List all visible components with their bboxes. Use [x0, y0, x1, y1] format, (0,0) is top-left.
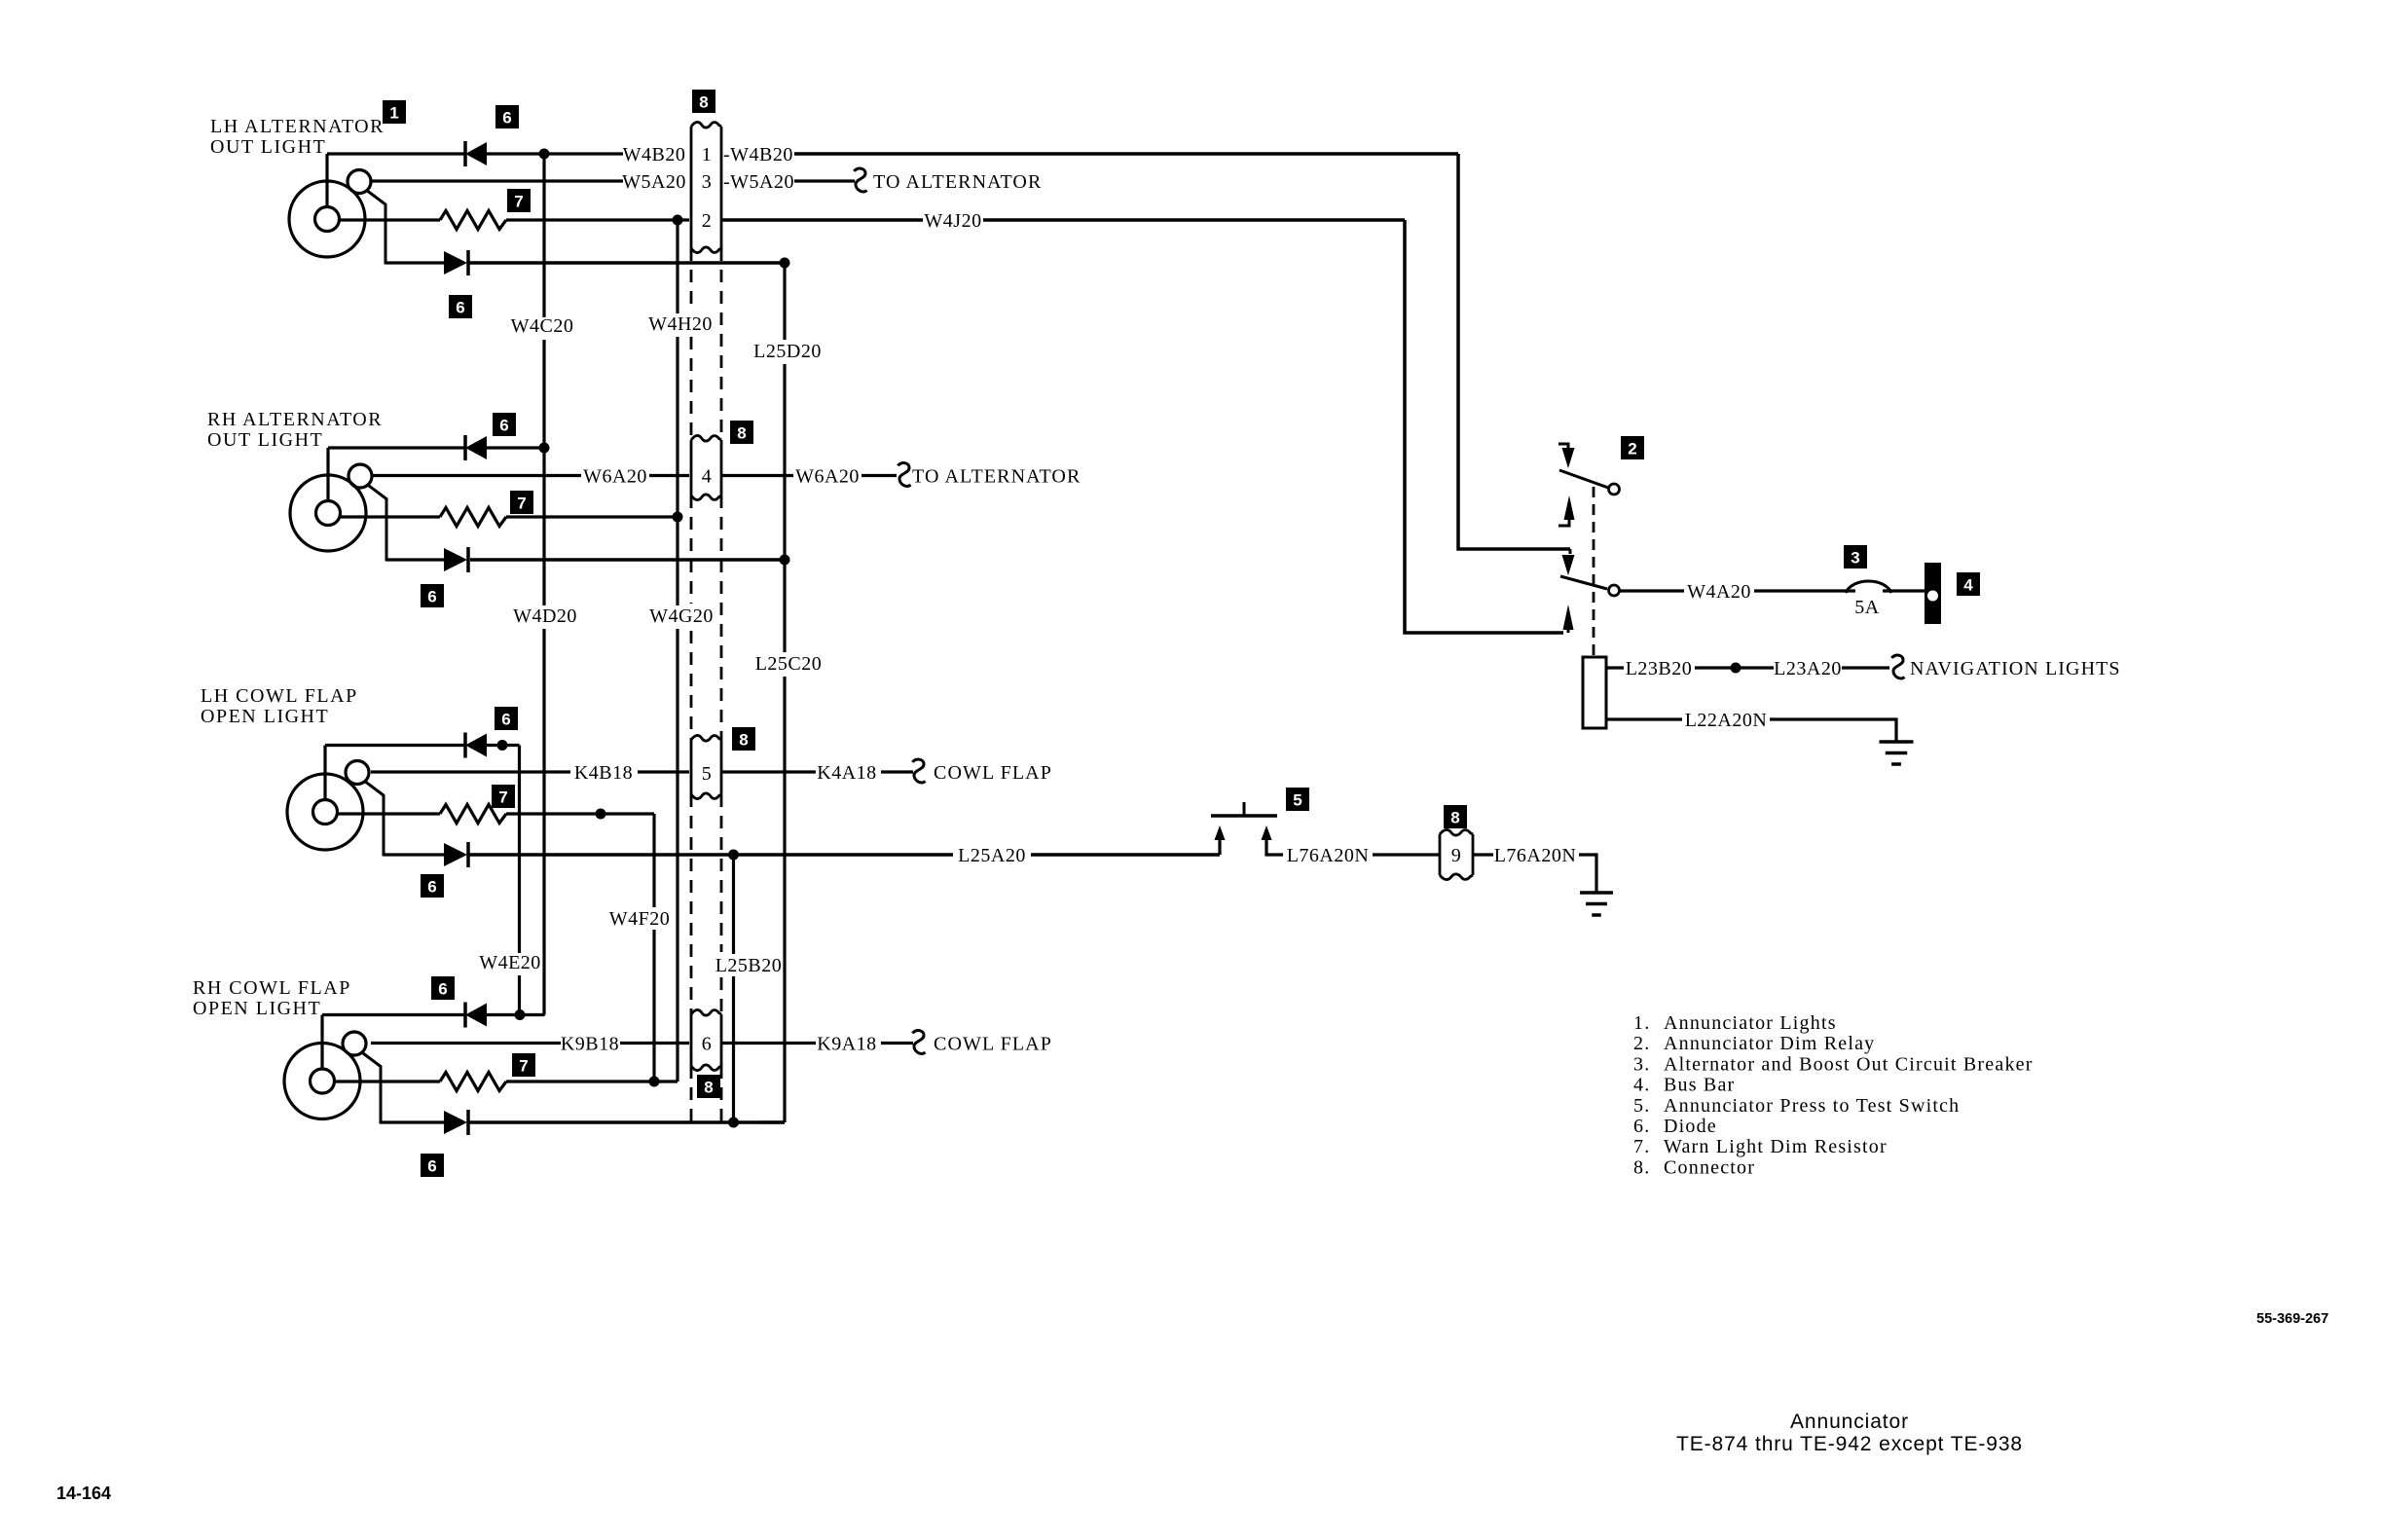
connector break (wavy edge) segment 1 bottom — [691, 247, 721, 253]
svg-text:NAVIGATION LIGHTS: NAVIGATION LIGHTS — [1910, 658, 2121, 679]
wire W4F20 lower — [652, 930, 655, 1082]
callout square 8 (connector, seg4) — [697, 1075, 720, 1098]
wire break symbol (L23A20 break) — [1892, 655, 1905, 678]
svg-text:TO ALTERNATOR: TO ALTERNATOR — [912, 466, 1081, 488]
svg-text:Annunciator Lights: Annunciator Lights — [1664, 1012, 1837, 1034]
wire W4B20 to relay — [794, 152, 1458, 156]
wire K9A18 stub — [721, 1042, 816, 1045]
junction W4C20/W4D20 junction — [539, 443, 550, 454]
diode CR3a (cathode left) — [465, 733, 487, 758]
wire W4J20 segment a — [721, 218, 923, 222]
diode CR3b (cathode right) — [444, 842, 468, 867]
relay coil box — [1583, 657, 1606, 728]
wire L25C20 lower — [783, 677, 786, 1122]
resistor R2 (warn light dim resistor) — [440, 508, 506, 527]
wire W4A20 stub a — [1620, 589, 1684, 592]
callout square 6 (diode CR3b) — [421, 874, 444, 898]
arrow switch arrow 1 — [1215, 825, 1226, 840]
wire lamp 2 lower lead (diagonal) — [367, 485, 388, 561]
svg-text:4: 4 — [702, 466, 713, 488]
wire break symbol (W6A20 break) — [898, 463, 911, 487]
wire K9B18 left segment a — [371, 1042, 561, 1045]
junction W4H20 tap on pin2 row — [673, 215, 683, 226]
wire row1 block 4 (lamp to diode) — [322, 1013, 465, 1016]
connector dashed shell lines — [690, 248, 693, 312]
svg-text:K9A18: K9A18 — [817, 1034, 876, 1055]
connector segment 4 right edge — [720, 1014, 723, 1066]
connector segment (pin 9) right edge — [1472, 834, 1475, 875]
junction W4F20 tap — [596, 809, 606, 820]
wire K4B18 left segment b — [638, 770, 689, 773]
wire row4 block 1 lead — [385, 261, 444, 264]
svg-text:W4E20: W4E20 — [479, 952, 541, 973]
wire block3 resistor row — [506, 812, 654, 815]
diode CR4b (cathode right) — [444, 1110, 468, 1135]
svg-text:3.: 3. — [1633, 1053, 1650, 1075]
diode CR1b (cathode right) — [444, 250, 468, 275]
wire lamp 1 top lead — [325, 154, 328, 207]
svg-text:Bus Bar: Bus Bar — [1664, 1075, 1735, 1096]
annunciator lamp DS1 — [289, 170, 371, 258]
wire W4H20 lower — [676, 337, 678, 517]
callout square 6 (diode CR4a) — [431, 976, 455, 1000]
svg-text:K4A18: K4A18 — [817, 762, 876, 784]
relay armature hook (upper) — [1558, 520, 1569, 526]
svg-text:W4F20: W4F20 — [609, 908, 671, 930]
wire block4 resistor row — [506, 1080, 678, 1082]
wire L22A20N to ground — [1770, 719, 1896, 742]
svg-text:W5A20: W5A20 — [622, 171, 686, 193]
svg-text:W4G20: W4G20 — [649, 605, 714, 627]
wire switch to L76A20N — [1266, 839, 1283, 855]
callout square 1 (annunciator lights) — [383, 100, 406, 124]
svg-text:8: 8 — [704, 1079, 713, 1097]
wire W6A20 left segment b — [649, 474, 689, 477]
wire L76A20N stub right — [1473, 853, 1493, 856]
wire block2 bottom diode row — [470, 558, 785, 562]
svg-text:Annunciator Press to Test Swit: Annunciator Press to Test Switch — [1664, 1095, 1960, 1117]
svg-text:6: 6 — [427, 1157, 436, 1176]
wire lamp 1 lower lead (diagonal) — [366, 190, 387, 263]
svg-text:8: 8 — [739, 731, 748, 750]
svg-text:K4B18: K4B18 — [574, 762, 633, 784]
svg-text:7: 7 — [519, 1057, 528, 1076]
wire W4G20 lower — [676, 629, 678, 1082]
junction W4F20 bottom junction — [649, 1077, 660, 1087]
wire W6A20 left segment a — [371, 474, 581, 477]
svg-text:8: 8 — [737, 424, 746, 443]
relay upper contact blade — [1559, 470, 1608, 488]
relay middle contact blade — [1560, 576, 1607, 589]
wire row1 block 3 (lamp to diode) — [325, 744, 465, 747]
svg-text:OUT LIGHT: OUT LIGHT — [210, 136, 326, 158]
wire K9B18 left segment b — [620, 1042, 689, 1045]
relay armature stem (lower) — [1567, 630, 1570, 633]
wire row to pin 2 — [506, 218, 689, 221]
svg-text:COWL FLAP: COWL FLAP — [934, 1034, 1052, 1055]
wire W4C20 lower — [542, 340, 545, 448]
junction L25D20 top junction — [780, 258, 790, 269]
connector break (wavy edge) segment 3 top — [691, 735, 721, 741]
wire block4 top diode row tail — [487, 1013, 545, 1016]
svg-text:COWL FLAP: COWL FLAP — [934, 762, 1052, 784]
callout square 7 (resistor R4) — [512, 1053, 535, 1077]
wire row4 block 2 lead — [386, 558, 444, 561]
connector break (wavy edge) pin9 bottom — [1440, 874, 1473, 880]
wire L23B20 stub a — [1606, 666, 1624, 669]
arrow switch arrow 2 — [1262, 825, 1272, 840]
junction L25B20 top junction — [728, 850, 739, 861]
svg-text:6: 6 — [499, 417, 508, 435]
connector break (wavy edge) segment 2 bottom — [691, 495, 721, 500]
svg-text:7: 7 — [498, 788, 507, 807]
callout square 8 (connector, pin 9) — [1444, 805, 1467, 828]
wire L23B20 stub b — [1695, 666, 1731, 669]
wire L25A20 row segment b — [1031, 853, 1220, 857]
callout square 4 (bus bar) — [1957, 572, 1980, 596]
svg-text:14-164: 14-164 — [56, 1484, 111, 1503]
wire L22A20N stub a — [1606, 717, 1682, 720]
wire W4F20 upper — [652, 814, 655, 907]
connector segment 3 right edge — [720, 740, 723, 794]
connector break (wavy edge) segment 4 bottom — [691, 1065, 721, 1071]
svg-text:W4B20: W4B20 — [623, 144, 686, 165]
diode CR1a (cathode left) — [465, 141, 487, 166]
svg-text:5.: 5. — [1633, 1095, 1650, 1117]
wire row3 block 1 (lamp to resistor) — [340, 218, 441, 221]
wire W4B20 left segment — [487, 152, 623, 155]
svg-text:L25D20: L25D20 — [753, 341, 822, 362]
wire lamp 3 lower lead (diagonal) — [364, 781, 385, 855]
arrow relay middle contact arrow (down) — [1562, 555, 1575, 575]
callout square 5 (press to test switch) — [1286, 788, 1309, 811]
wire L25C20 bottom corner — [760, 1120, 785, 1123]
svg-text:RH ALTERNATOR: RH ALTERNATOR — [207, 409, 383, 430]
wire W4J20 drop to relay — [1405, 220, 1563, 633]
svg-text:3: 3 — [702, 171, 713, 193]
connector segment 1 right edge — [720, 127, 723, 248]
wire row3 block 2 (lamp to resistor) — [341, 515, 441, 518]
resistor R1 (warn light dim resistor) — [440, 211, 506, 230]
svg-text:7: 7 — [514, 193, 523, 211]
callout square 6 (diode CR2b) — [421, 584, 444, 607]
svg-text:TE-874 thru TE-942 except TE-9: TE-874 thru TE-942 except TE-938 — [1676, 1433, 2023, 1455]
wire L25A20 row segment a — [468, 853, 953, 857]
svg-text:1: 1 — [702, 144, 713, 165]
wire L25D20 upper — [783, 263, 786, 340]
bus bar (item 4) — [1925, 563, 1941, 624]
wire lamp 4 top lead — [320, 1015, 323, 1070]
svg-text:W4J20: W4J20 — [924, 210, 981, 232]
svg-text:LH ALTERNATOR: LH ALTERNATOR — [210, 116, 385, 137]
wire row1 block 2 (lamp to diode) — [328, 446, 465, 449]
wire L23A20 stub a — [1741, 666, 1774, 669]
relay actuation dashed link — [1593, 487, 1595, 657]
svg-text:6: 6 — [502, 109, 511, 128]
arrow relay armature arrow up (upper) — [1564, 495, 1575, 520]
svg-text:OPEN LIGHT: OPEN LIGHT — [193, 998, 321, 1019]
callout square 6 (diode CR2a) — [493, 413, 516, 436]
wire K4A18 stub — [721, 770, 816, 773]
connector break (wavy edge) pin9 top — [1440, 829, 1473, 835]
callout square 7 (resistor R2) — [510, 491, 533, 514]
svg-text:3: 3 — [1851, 549, 1859, 568]
svg-text:RH COWL FLAP: RH COWL FLAP — [193, 977, 351, 999]
wire row4 block 4 lead — [381, 1120, 444, 1123]
svg-text:8: 8 — [699, 93, 708, 112]
wire W4E20 lower — [518, 975, 521, 1015]
junction W4C20 tap on W4B20 row — [539, 149, 550, 160]
svg-text:4.: 4. — [1633, 1075, 1650, 1096]
ground symbol ground (navigation lights) — [1880, 742, 1914, 764]
svg-text:-W4B20: -W4B20 — [723, 144, 793, 165]
svg-text:4: 4 — [1963, 576, 1973, 595]
svg-text:OUT LIGHT: OUT LIGHT — [207, 429, 323, 451]
arrow relay armature arrow up (lower) — [1563, 605, 1574, 630]
wire L25D20 lower — [783, 364, 786, 560]
wire W5A20 left segment — [371, 179, 623, 182]
wire W4J20 segment b — [983, 218, 1405, 222]
wire W4B20 drop to relay — [1458, 154, 1570, 549]
arrow relay upper contact arrow (down) — [1562, 448, 1575, 468]
svg-text:1: 1 — [389, 104, 398, 123]
callout square 8 (connector, top) — [692, 90, 715, 113]
svg-text:L25A20: L25A20 — [958, 845, 1026, 866]
wire L76A20N to ground — [1579, 855, 1596, 893]
junction L23 splice — [1731, 663, 1741, 674]
svg-text:5: 5 — [1293, 791, 1301, 810]
svg-text:6: 6 — [438, 980, 447, 999]
switch bar tick — [1243, 802, 1246, 816]
svg-text:L23B20: L23B20 — [1626, 658, 1693, 679]
svg-text:W6A20: W6A20 — [795, 466, 860, 488]
svg-text:Connector: Connector — [1664, 1156, 1755, 1178]
svg-text:Diode: Diode — [1664, 1116, 1717, 1137]
callout square 3 (circuit breaker) — [1844, 545, 1867, 568]
svg-text:9: 9 — [1451, 845, 1462, 866]
callout square 6 (diode CR1b) — [449, 295, 472, 318]
junction L25D20/L25C20 junction — [780, 555, 790, 566]
svg-text:5: 5 — [702, 763, 713, 785]
callout square 6 (diode CR4b) — [421, 1154, 444, 1177]
wire W4E20 upper — [518, 746, 521, 954]
wire K9A18 stub b — [881, 1042, 913, 1045]
svg-text:8: 8 — [1450, 809, 1459, 827]
svg-text:W4A20: W4A20 — [1687, 581, 1751, 603]
svg-text:W4C20: W4C20 — [511, 315, 574, 337]
svg-text:W4D20: W4D20 — [513, 605, 577, 627]
svg-text:L22A20N: L22A20N — [1685, 710, 1768, 731]
diode CR4a (cathode left) — [465, 1003, 487, 1028]
wire W6A20 right stub — [721, 474, 793, 477]
junction block3 top diode junction — [497, 740, 508, 751]
wire L25C20 upper — [783, 560, 786, 652]
svg-text:6.: 6. — [1633, 1116, 1650, 1137]
callout square 6 (diode CR3a) — [495, 707, 518, 730]
wire L76A20N segment — [1373, 853, 1440, 856]
resistor R4 (warn light dim resistor) — [440, 1073, 506, 1091]
switch bar — [1211, 814, 1277, 818]
diode CR2a (cathode left) — [465, 435, 487, 460]
wire K4B18 left segment a — [371, 770, 570, 773]
wire row3 block 3 (lamp to resistor) — [338, 812, 441, 815]
wire row3 block 4 (lamp to resistor) — [335, 1080, 441, 1082]
annunciator lamp DS2 — [290, 464, 372, 551]
junction W4H20/W4G20 junction — [673, 512, 683, 523]
svg-text:2: 2 — [1628, 440, 1636, 458]
svg-text:L23A20: L23A20 — [1774, 658, 1842, 679]
wire break symbol (W5A20 break) — [855, 168, 867, 192]
wire W5A20 stub — [794, 179, 855, 182]
wire block1 bottom diode row — [468, 261, 785, 265]
svg-text:Alternator and Boost Out Circu: Alternator and Boost Out Circuit Breaker — [1664, 1053, 2034, 1075]
connector break (wavy edge) segment 3 bottom — [691, 793, 721, 799]
wire W4A20 to bus bar — [1883, 589, 1925, 592]
wire W4C20 upper — [542, 154, 545, 317]
wire W6A20 stub b — [862, 474, 897, 477]
relay middle contact terminal circle — [1609, 585, 1620, 596]
callout square 2 (annunciator dim relay) — [1621, 436, 1644, 459]
svg-text:L25C20: L25C20 — [755, 653, 823, 675]
annunciator lamp DS3 — [287, 761, 369, 851]
svg-text:6: 6 — [702, 1034, 713, 1055]
connector break (wavy edge) segment 2 top — [691, 435, 721, 441]
svg-text:6: 6 — [501, 711, 510, 729]
svg-text:7: 7 — [517, 495, 526, 513]
ground symbol ground (press to test) — [1580, 893, 1613, 915]
svg-text:OPEN LIGHT: OPEN LIGHT — [201, 706, 329, 727]
wire W4D20 upper — [542, 448, 545, 605]
svg-text:W4H20: W4H20 — [648, 313, 713, 335]
wire break symbol (K4A18 break) — [913, 759, 926, 783]
wire lamp 3 top lead — [323, 746, 326, 800]
svg-text:55-369-267: 55-369-267 — [2256, 1311, 2328, 1327]
svg-text:1.: 1. — [1633, 1012, 1650, 1034]
callout square 8 (connector, seg3) — [732, 727, 755, 751]
svg-text:TO ALTERNATOR: TO ALTERNATOR — [873, 171, 1042, 193]
wire L23A20 stub b — [1842, 666, 1889, 669]
wire L25B20 lower — [732, 976, 735, 1122]
wire lamp 4 lower lead (diagonal) — [361, 1052, 383, 1123]
relay middle contact arrow stem — [1569, 549, 1572, 554]
connector break (wavy edge) segment 1 top — [691, 122, 721, 128]
svg-text:6: 6 — [456, 299, 464, 317]
callout square 8 (connector, seg2) — [730, 421, 753, 444]
wire W4D20 lower — [542, 629, 545, 1015]
svg-text:W6A20: W6A20 — [583, 466, 647, 488]
connector segment 1 left edge — [690, 127, 693, 248]
wire K4A18 stub b — [881, 770, 913, 773]
wire lamp 2 top lead — [326, 448, 329, 501]
svg-text:Annunciator: Annunciator — [1790, 1411, 1909, 1433]
connector break (wavy edge) segment 4 top — [691, 1009, 721, 1015]
svg-text:Warn Light Dim Resistor: Warn Light Dim Resistor — [1664, 1136, 1888, 1157]
svg-text:5A: 5A — [1854, 597, 1880, 618]
svg-text:2: 2 — [702, 210, 713, 232]
diode CR2b (cathode right) — [444, 547, 468, 572]
wire W4G20 upper — [676, 517, 678, 605]
svg-text:L76A20N: L76A20N — [1494, 845, 1577, 866]
junction W4E20 bottom junction — [515, 1009, 526, 1020]
svg-text:LH COWL FLAP: LH COWL FLAP — [201, 685, 358, 707]
wire row1 block 1 (lamp to diode) — [327, 152, 465, 155]
svg-text:K9B18: K9B18 — [561, 1034, 619, 1055]
connector segment 2 left edge — [690, 440, 693, 495]
wire block4 bottom diode row — [468, 1120, 785, 1124]
wire block2 resistor row — [506, 515, 678, 518]
connector segment 3 left edge — [690, 740, 693, 794]
callout square 7 (resistor R3) — [492, 785, 515, 808]
circuit breaker (item 3) arc — [1846, 581, 1891, 593]
wire block3 top diode row tail — [487, 744, 520, 747]
annunciator lamp DS4 — [284, 1032, 366, 1119]
callout square 7 (resistor R1) — [507, 189, 531, 212]
svg-text:-W5A20: -W5A20 — [723, 171, 794, 193]
connector segment (pin 9) left edge — [1439, 834, 1442, 875]
wire row4 block 3 lead — [384, 853, 444, 856]
resistor R3 (warn light dim resistor) — [440, 805, 506, 824]
svg-text:Annunciator Dim Relay: Annunciator Dim Relay — [1664, 1033, 1875, 1054]
svg-text:6: 6 — [427, 588, 436, 606]
relay upper contact hook — [1558, 444, 1568, 450]
svg-text:L25B20: L25B20 — [715, 955, 783, 976]
callout square 6 (diode CR1a) — [495, 105, 519, 128]
wire break symbol (K9A18 break) — [913, 1031, 926, 1054]
wire L25A20 riser — [1218, 839, 1221, 855]
svg-text:7.: 7. — [1633, 1136, 1650, 1157]
svg-text:8.: 8. — [1633, 1156, 1650, 1178]
wire block2 top diode row — [487, 446, 544, 449]
relay upper contact terminal circle — [1609, 484, 1620, 495]
connector segment 2 right edge — [720, 440, 723, 495]
svg-text:L76A20N: L76A20N — [1287, 845, 1370, 866]
junction L25B20 bottom junction — [728, 1118, 739, 1128]
wire W4A20 stub b — [1754, 589, 1855, 592]
wire W4H20 upper — [676, 220, 678, 313]
wire L25B20 upper — [732, 855, 735, 954]
connector segment 4 left edge — [690, 1014, 693, 1066]
svg-text:2.: 2. — [1633, 1033, 1650, 1054]
svg-text:6: 6 — [427, 878, 436, 897]
